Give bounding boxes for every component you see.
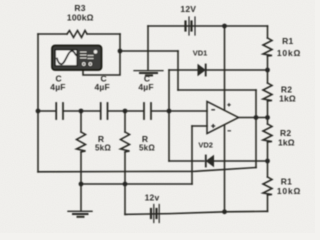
- resistor R 5k second: [121, 132, 130, 152]
- wire non-inverting to common rail: [191, 126, 193, 184]
- svg-text:VD2: VD2: [198, 141, 213, 150]
- wire R5k second vertical: [124, 111, 126, 214]
- wire feedback horizontal to output: [178, 89, 256, 91]
- node output/divider junction: [265, 115, 270, 120]
- wire common rail: [81, 183, 192, 185]
- svg-text:4µF: 4µF: [138, 82, 153, 92]
- resistor R1 top: [263, 38, 272, 56]
- pin minus input: [211, 109, 215, 111]
- svg-text:10kΩ: 10kΩ: [277, 48, 301, 58]
- node common rail left junction: [79, 182, 84, 187]
- wire output return line to ladder input: [38, 168, 256, 172]
- svg-text:1kΩ: 1kΩ: [279, 94, 296, 104]
- wire R3 top horizontal: [38, 33, 120, 35]
- svg-text:R2: R2: [280, 128, 291, 138]
- node R2/R1 lower junction: [265, 159, 270, 164]
- ground (common rail): [68, 211, 92, 217]
- capacitor C3: [144, 103, 151, 119]
- node ladder input junction: [36, 109, 41, 114]
- wire scope loop: [83, 51, 120, 75]
- wire drop to output node: [255, 90, 257, 118]
- svg-text:12v: 12v: [145, 192, 160, 202]
- wire +12V top rail: [148, 25, 268, 27]
- pin plus input: [211, 124, 215, 128]
- node A junction: [118, 49, 123, 54]
- wire left vertical from R3 to output line: [37, 34, 39, 172]
- battery GB1 12V top: [186, 17, 196, 35]
- ground (top battery): [134, 71, 163, 76]
- svg-text:4µF: 4µF: [50, 82, 65, 92]
- wire output feedback down: [255, 118, 257, 168]
- svg-text:VD1: VD1: [193, 48, 208, 57]
- svg-text:R: R: [98, 134, 104, 144]
- wire feedback vertical: [177, 51, 179, 90]
- oscilloscope icon: [52, 46, 102, 71]
- capacitor C1: [56, 103, 63, 119]
- svg-text:1kΩ: 1kΩ: [278, 138, 295, 148]
- wire node A to feedback corner: [120, 50, 178, 52]
- wire top battery left drop to ground: [147, 26, 149, 70]
- node C2/C3 junction: [123, 109, 128, 114]
- op-amp U1: [207, 102, 239, 134]
- wire V- supply from op-amp: [224, 126, 226, 212]
- node +12V junction: [222, 24, 227, 29]
- resistor R2 upper: [263, 83, 272, 101]
- svg-text:12V: 12V: [180, 4, 196, 14]
- resistor R3: [67, 31, 87, 38]
- wire divider chain vertical: [267, 26, 269, 211]
- diode VD2: [206, 156, 214, 167]
- svg-text:4µF: 4µF: [94, 82, 109, 92]
- node common rail right junction: [123, 182, 128, 187]
- pin V- polarity: [228, 130, 232, 132]
- wire inverting node vertical: [168, 70, 170, 161]
- resistor R2 lower: [263, 124, 272, 142]
- wire non-inverting input stub: [192, 125, 207, 127]
- wire output: [239, 117, 268, 119]
- capacitor C2: [101, 103, 108, 119]
- svg-text:R1: R1: [281, 177, 292, 187]
- svg-text:5kΩ: 5kΩ: [95, 144, 111, 153]
- svg-text:10kΩ: 10kΩ: [277, 186, 301, 196]
- wire V+ supply to op-amp: [224, 26, 226, 110]
- resistor R 5k first: [77, 132, 86, 152]
- svg-text:R1: R1: [282, 36, 293, 46]
- svg-text:100kΩ: 100kΩ: [67, 12, 94, 22]
- wire ground stub: [80, 184, 82, 211]
- wire -12V bottom rail: [125, 211, 268, 214]
- node V- rail junction: [222, 209, 227, 214]
- wire VD2 branch: [169, 160, 268, 162]
- resistor R1 bottom: [263, 177, 272, 195]
- node R1/R2 upper junction: [265, 68, 270, 73]
- wire VD1 branch: [169, 69, 268, 71]
- svg-text:5kΩ: 5kΩ: [139, 144, 155, 153]
- node output junction: [254, 115, 259, 120]
- wire R5k first vertical: [80, 111, 82, 184]
- battery GB2 12V bottom: [151, 205, 159, 223]
- wire R3 right drop to node A: [119, 34, 121, 51]
- node inverting input junction: [167, 109, 172, 114]
- diode VD1: [198, 65, 206, 76]
- svg-text:R: R: [142, 134, 148, 144]
- pin V+ polarity: [227, 103, 230, 106]
- node C1/C2 junction: [79, 109, 84, 114]
- wire RC ladder horizontal: [38, 110, 207, 112]
